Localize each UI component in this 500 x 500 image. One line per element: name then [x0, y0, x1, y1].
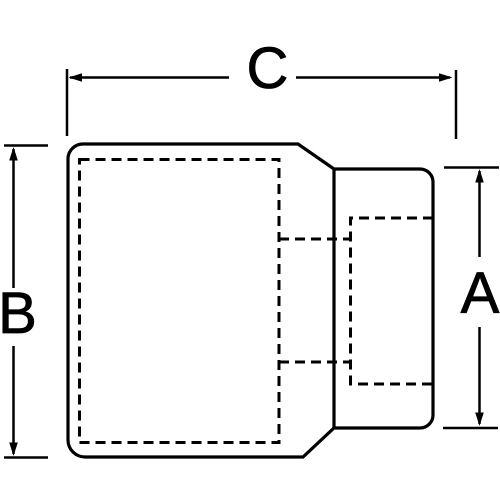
- dimension C arrow right: [439, 73, 453, 82]
- hidden connector line lower: [279, 361, 351, 364]
- dimension A arrow down: [475, 413, 484, 427]
- svg-text:A: A: [461, 261, 500, 326]
- dimension A line: [478, 171, 481, 424]
- dimension C extension line right: [455, 70, 458, 139]
- dimension B tick bottom: [4, 456, 48, 459]
- hex cavity hidden outline (dashed): [80, 160, 280, 443]
- dimension B arrow down: [9, 443, 18, 457]
- dimension A arrow up: [475, 169, 484, 183]
- dimension B tick top: [4, 144, 48, 147]
- body/drive divider line: [332, 169, 335, 428]
- svg-text:B: B: [0, 281, 37, 346]
- dimension C arrow left: [69, 73, 83, 82]
- dimension B arrow up: [9, 147, 18, 161]
- square drive hidden outline (dashed): [351, 218, 434, 384]
- dimension C line: [70, 76, 450, 79]
- socket body outline: [68, 144, 433, 457]
- dimension A tick bottom: [443, 427, 498, 430]
- dimension B line: [12, 149, 15, 454]
- dimension C extension line left: [66, 69, 69, 136]
- hidden connector line upper: [279, 238, 351, 241]
- svg-text:C: C: [247, 36, 289, 101]
- dimension A tick top: [444, 166, 499, 169]
